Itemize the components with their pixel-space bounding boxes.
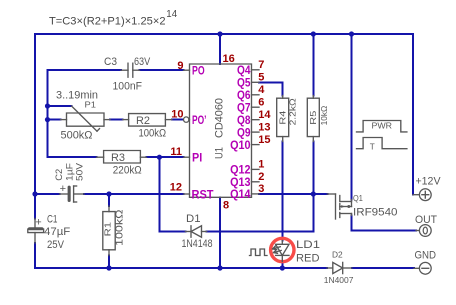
svg-text:2.2kΩ: 2.2kΩ [287, 98, 297, 125]
svg-text:U1: U1 [214, 147, 226, 159]
svg-text:16: 16 [223, 53, 235, 65]
svg-text:1µF: 1µF [64, 162, 74, 181]
svg-text:R5: R5 [309, 110, 318, 125]
svg-text:1N4007: 1N4007 [324, 276, 354, 285]
svg-text:R1: R1 [103, 222, 112, 237]
svg-text:500kΩ: 500kΩ [61, 130, 93, 142]
svg-text:100nF: 100nF [113, 80, 143, 92]
svg-text:IRF9540: IRF9540 [353, 207, 398, 219]
svg-text:P1: P1 [85, 101, 97, 110]
svg-text:10: 10 [171, 109, 183, 121]
svg-text:10kΩ: 10kΩ [319, 106, 329, 126]
svg-text:11: 11 [170, 146, 182, 158]
svg-text:PO: PO [192, 64, 205, 78]
svg-text:220kΩ: 220kΩ [113, 164, 142, 176]
svg-text:OUT: OUT [415, 214, 437, 226]
svg-text:Q1: Q1 [353, 194, 363, 203]
svg-text:12: 12 [170, 182, 182, 194]
svg-text:Q10: Q10 [230, 138, 251, 152]
svg-text:25V: 25V [47, 239, 65, 251]
svg-text:1N4148: 1N4148 [182, 238, 213, 250]
svg-text:100kΩ: 100kΩ [114, 209, 125, 246]
svg-text:PO’: PO’ [192, 113, 207, 127]
svg-text:R3: R3 [111, 152, 125, 164]
svg-text:PI: PI [192, 151, 202, 165]
svg-text:3: 3 [258, 183, 264, 195]
svg-text:14: 14 [258, 109, 271, 121]
svg-text:4: 4 [258, 84, 265, 96]
svg-text:D2: D2 [332, 250, 343, 259]
svg-text:RST: RST [192, 188, 215, 202]
svg-text:RED: RED [296, 252, 320, 264]
svg-text:D1: D1 [186, 213, 201, 225]
svg-text:5: 5 [258, 72, 264, 84]
svg-text:15: 15 [258, 134, 270, 146]
svg-text:8: 8 [223, 200, 229, 212]
svg-text:47µF: 47µF [44, 226, 71, 238]
svg-text:R2: R2 [136, 115, 150, 127]
svg-text:7: 7 [258, 59, 264, 71]
svg-text:GND: GND [415, 250, 437, 262]
svg-text:R4: R4 [279, 110, 288, 125]
svg-text:14: 14 [166, 9, 177, 20]
svg-text:+: + [60, 183, 66, 195]
svg-text:T=C3×(R2+P1)×1.25×2: T=C3×(R2+P1)×1.25×2 [49, 16, 166, 28]
svg-text:63V: 63V [134, 56, 151, 68]
svg-text:Q14: Q14 [230, 187, 251, 201]
svg-text:3..19min: 3..19min [56, 89, 98, 101]
svg-text:9: 9 [177, 60, 183, 72]
svg-text:LD1: LD1 [296, 239, 320, 251]
svg-text:13: 13 [258, 121, 270, 133]
svg-text:+: + [35, 216, 41, 228]
svg-text:CD4060: CD4060 [214, 98, 226, 138]
svg-text:50V: 50V [74, 163, 84, 181]
svg-text:1: 1 [258, 159, 264, 171]
svg-text:+12V: +12V [416, 176, 442, 188]
svg-text:2: 2 [258, 171, 264, 183]
svg-text:C3: C3 [104, 56, 117, 68]
svg-text:C1: C1 [47, 213, 58, 225]
svg-text:6: 6 [258, 96, 264, 108]
svg-text:C2: C2 [54, 169, 64, 181]
svg-text:PWR: PWR [372, 122, 393, 131]
svg-text:T: T [370, 142, 375, 151]
svg-text:100kΩ: 100kΩ [139, 127, 167, 139]
